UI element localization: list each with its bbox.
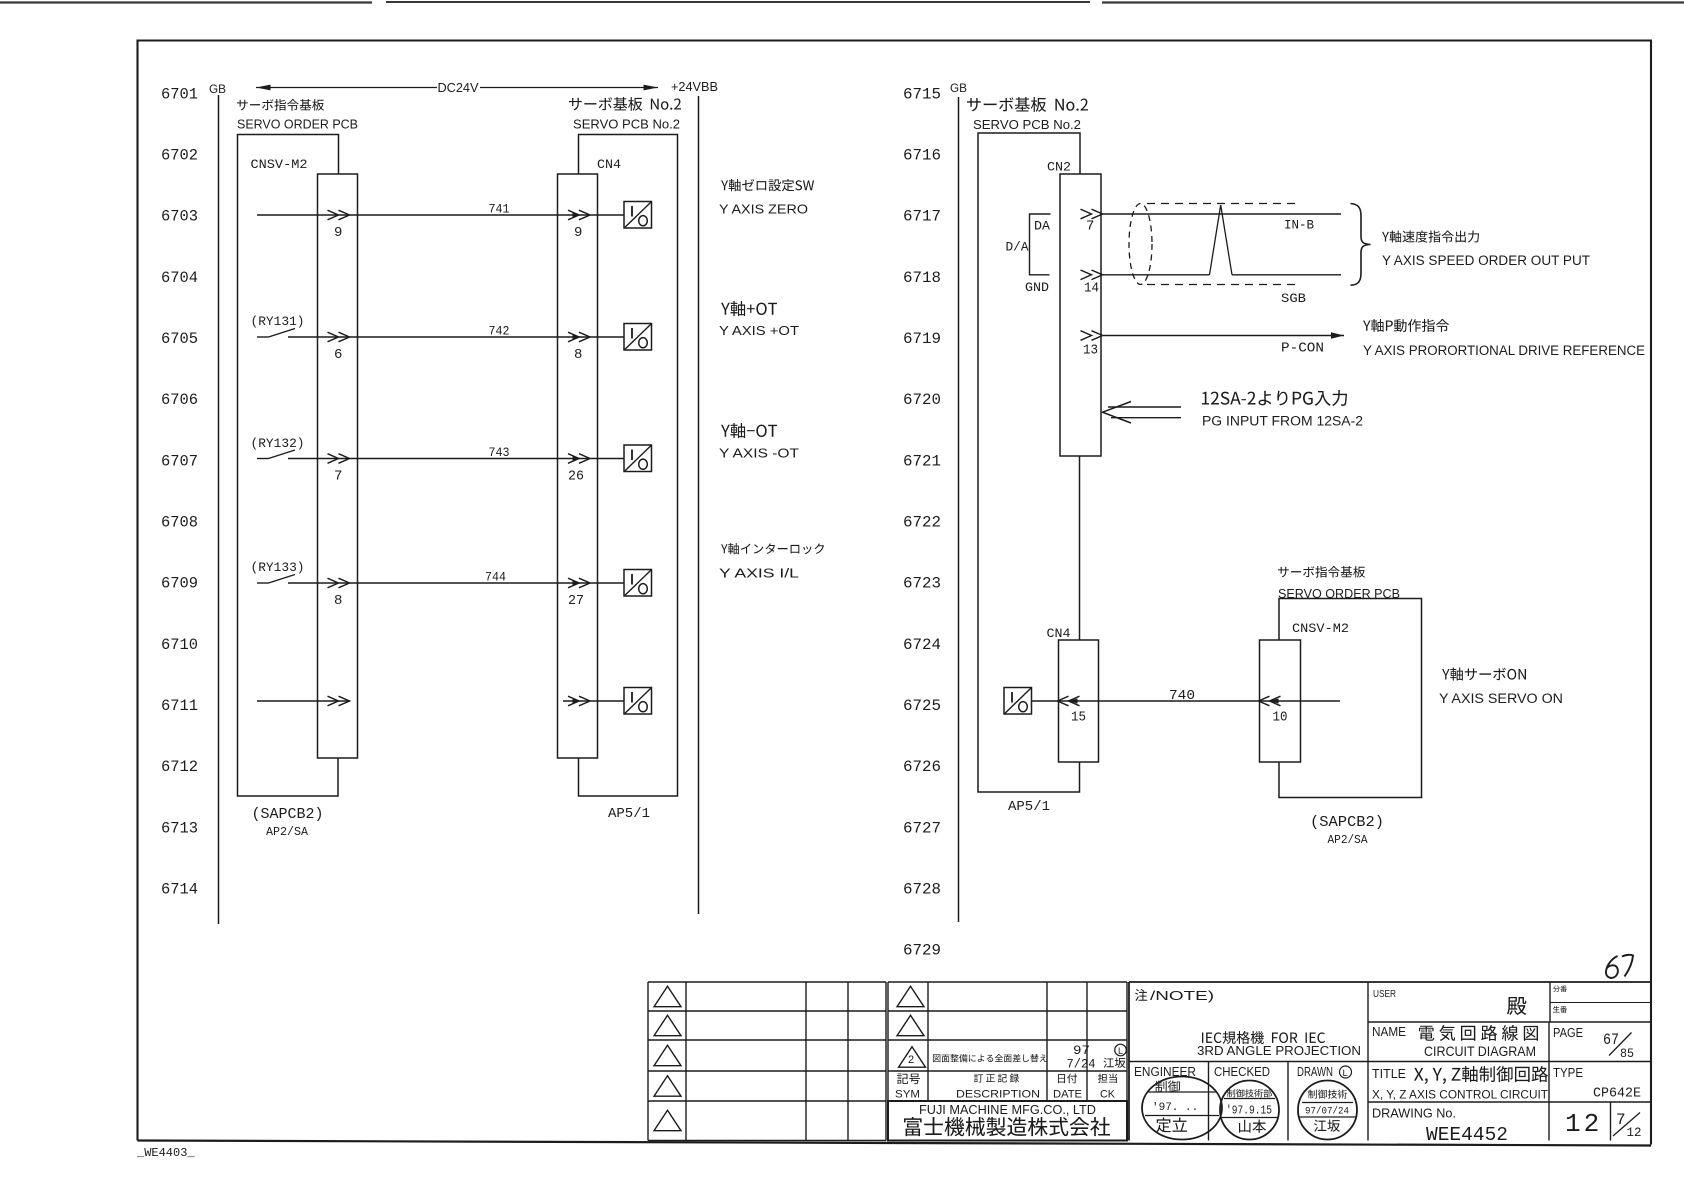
svg-text:DC24V: DC24V [438, 80, 479, 95]
svg-text:6719: 6719 [903, 330, 941, 348]
svg-text:WEE4452: WEE4452 [1426, 1124, 1508, 1146]
svg-text:SERVO ORDER PCB: SERVO ORDER PCB [1278, 587, 1400, 601]
title block part number cells [1553, 986, 1567, 1013]
svg-text:SERVO PCB No.2: SERVO PCB No.2 [573, 118, 680, 132]
svg-text:743: 743 [489, 445, 510, 460]
svg-text:CNSV-M2: CNSV-M2 [251, 157, 308, 172]
stamp DRAWN (Esaka) [1298, 1081, 1357, 1140]
svg-text:FUJI MACHINE MFG.CO., LTD: FUJI MACHINE MFG.CO., LTD [919, 1102, 1096, 1117]
svg-text:PAGE: PAGE [1553, 1026, 1583, 1040]
svg-text:7: 7 [1086, 219, 1094, 235]
svg-text:6707: 6707 [161, 452, 198, 470]
svg-text:(RY133): (RY133) [251, 560, 305, 575]
svg-text:SYM: SYM [895, 1089, 920, 1101]
title block TITLE: X,Y,Z AXIS CONTROL CIRCUIT [1372, 1066, 1548, 1101]
svg-text:SERVO ORDER PCB: SERVO ORDER PCB [237, 118, 358, 132]
svg-text:6703: 6703 [161, 208, 198, 226]
revision table (left) [648, 982, 886, 1141]
svg-text:6711: 6711 [161, 697, 198, 715]
board SERVO PCB No.2 (right) outline [967, 97, 1088, 792]
svg-text:6709: 6709 [161, 575, 198, 593]
svg-text:744: 744 [485, 570, 506, 585]
svg-text:6708: 6708 [161, 514, 198, 532]
svg-text:6729: 6729 [903, 942, 941, 960]
svg-text:D/A: D/A [1006, 240, 1029, 255]
svg-text:6706: 6706 [161, 391, 198, 409]
svg-text:13: 13 [1083, 343, 1098, 359]
board SERVO ORDER PCB (right) outline [1278, 566, 1422, 797]
svg-text:6705: 6705 [161, 330, 198, 348]
svg-text:12: 12 [1627, 1125, 1642, 1140]
svg-text:6723: 6723 [903, 575, 941, 593]
svg-text:Y AXIS I/L: Y AXIS I/L [719, 566, 799, 581]
board SERVO ORDER PCB (left) outline [237, 99, 358, 796]
svg-text:CIRCUIT DIAGRAM: CIRCUIT DIAGRAM [1424, 1043, 1536, 1059]
svg-text:6725: 6725 [903, 697, 941, 715]
wire 741 (Y axis zero) [257, 210, 624, 220]
label Y AXIS SPEED ORDER OUT PUT [1382, 231, 1590, 268]
label Y AXIS +OT [719, 301, 799, 338]
I/O symbol row 6705 [624, 324, 652, 351]
I/O symbol row 6711 [624, 688, 652, 715]
svg-text:6728: 6728 [903, 881, 941, 899]
revision table header SYM DESCRIPTION DATE CK [895, 1073, 1117, 1100]
net DC24V span arrow [256, 80, 658, 95]
svg-text:DATE: DATE [1053, 1089, 1082, 1101]
maker name cell border [888, 1101, 1127, 1141]
I/O symbol row 6725 [1004, 688, 1032, 715]
svg-text:741: 741 [489, 202, 510, 217]
svg-text:14: 14 [1084, 281, 1099, 297]
svg-text:CHECKED: CHECKED [1214, 1064, 1270, 1079]
D/A converter block [1006, 214, 1051, 295]
note text IEC / 3RD ANGLE PROJECTION [1197, 1031, 1361, 1058]
svg-text:_WE4403_: _WE4403_ [136, 1146, 195, 1160]
svg-text:CK: CK [1100, 1089, 1116, 1101]
svg-text:97/07/24: 97/07/24 [1305, 1106, 1349, 1118]
svg-text:DRAWING No.: DRAWING No. [1372, 1107, 1456, 1121]
svg-text:8: 8 [334, 593, 342, 609]
connector CNSV-M2 (left) [251, 157, 358, 758]
svg-text:SERVO PCB No.2: SERVO PCB No.2 [973, 118, 1081, 132]
I/O symbol row 6703 [624, 202, 652, 229]
svg-text:'97.9.15: '97.9.15 [1226, 1105, 1272, 1118]
I/O symbol row 6707 [624, 445, 652, 472]
svg-text:3RD ANGLE PROJECTION: 3RD ANGLE PROJECTION [1197, 1044, 1361, 1058]
wire row 6711 (unlabeled spare) [257, 696, 624, 706]
svg-text:6717: 6717 [903, 208, 941, 226]
svg-text:CP642E: CP642E [1593, 1086, 1641, 1102]
svg-text:P-CON: P-CON [1281, 341, 1324, 357]
svg-text:6715: 6715 [903, 85, 941, 103]
svg-text:PG INPUT FROM 12SA-2: PG INPUT FROM 12SA-2 [1202, 414, 1363, 429]
svg-text:2: 2 [908, 1054, 914, 1066]
relay contact RY131 [251, 314, 305, 329]
I/O symbol row 6709 [624, 570, 652, 597]
svg-text:IN-B: IN-B [1284, 218, 1314, 233]
bus +24VBB vertical wire [698, 96, 700, 914]
svg-text:9: 9 [334, 225, 342, 241]
svg-text:Y AXIS PRORORTIONAL DRIVE REFE: Y AXIS PRORORTIONAL DRIVE REFERENCE [1363, 343, 1645, 358]
svg-text:6724: 6724 [903, 636, 941, 654]
svg-text:GND: GND [1025, 281, 1049, 295]
svg-text:740: 740 [1169, 688, 1195, 704]
svg-text:8: 8 [574, 347, 582, 363]
svg-text:AP5/1: AP5/1 [1008, 799, 1050, 815]
svg-text:'97. ..: '97. .. [1152, 1102, 1198, 1114]
svg-text:SGB: SGB [1281, 291, 1306, 306]
svg-text:/NOTE): /NOTE) [1150, 989, 1214, 1003]
line number column 6715-6729 [903, 85, 941, 959]
revision marks rows 1-2 (right table) [897, 986, 924, 1035]
svg-text:7: 7 [334, 469, 342, 485]
wire SGB (pin 14, speed order -) with twist crossover [1081, 205, 1342, 280]
label Y AXIS I/L [719, 543, 824, 580]
svg-text:AP2/SA: AP2/SA [1328, 833, 1369, 847]
relay contact RY132 [251, 436, 305, 451]
PG input double-line arrow [1103, 402, 1182, 424]
svg-text:X, Y, Z AXIS CONTROL CIRCUIT: X, Y, Z AXIS CONTROL CIRCUIT [1372, 1090, 1548, 1102]
wire 744 (Y axis interlock) [257, 575, 624, 588]
svg-text:6714: 6714 [161, 881, 198, 899]
stamp cell headers ENGINEER CHECKED DRAWN [1134, 1064, 1352, 1079]
svg-text:(SAPCB2): (SAPCB2) [252, 806, 324, 823]
svg-text:Y AXIS -OT: Y AXIS -OT [719, 446, 799, 461]
label PG INPUT FROM 12SA-2 [1202, 390, 1363, 429]
label Y AXIS SERVO ON [1439, 668, 1563, 706]
board SERVO PCB No.2 (left) outline [569, 97, 681, 796]
line number column 6701-6714 [161, 85, 198, 898]
maker name FUJI MACHINE MFG.CO., LTD [904, 1102, 1110, 1136]
label Y AXIS PROPORTIONAL DRIVE REFERENCE [1363, 319, 1645, 358]
svg-text:(SAPCB2): (SAPCB2) [1310, 814, 1384, 831]
svg-text:6716: 6716 [903, 147, 941, 165]
title block PAGE 67/85 [1553, 1026, 1634, 1061]
svg-text:AP5/1: AP5/1 [608, 806, 650, 822]
svg-text:Y AXIS ZERO: Y AXIS ZERO [719, 202, 808, 217]
handwritten page number 67 [1606, 956, 1618, 978]
title block DRAWING No. WEE4452 [1372, 1107, 1508, 1147]
svg-text:6726: 6726 [903, 758, 941, 776]
svg-text:CN4: CN4 [597, 157, 621, 172]
svg-text:6718: 6718 [903, 269, 941, 287]
cable shield symbol (dashed) [1129, 204, 1300, 285]
svg-text:6727: 6727 [903, 819, 941, 837]
title block TYPE CP642E [1553, 1066, 1641, 1102]
svg-text:AP2/SA: AP2/SA [266, 825, 309, 839]
svg-text:6713: 6713 [161, 819, 198, 837]
svg-text:6702: 6702 [161, 147, 198, 165]
label Y AXIS -OT [719, 423, 799, 460]
svg-text:(RY132): (RY132) [251, 436, 305, 451]
svg-text:6720: 6720 [903, 391, 941, 409]
wire 742 (Y axis +OT) [257, 329, 624, 342]
relay contact RY133 [251, 560, 305, 575]
svg-text:GB: GB [209, 82, 226, 96]
svg-text:7/24: 7/24 [1067, 1057, 1096, 1072]
stamp ENGINEER (Adachi) [1142, 1077, 1222, 1140]
svg-text:TYPE: TYPE [1553, 1066, 1583, 1080]
stamp CHECKED (Yamamoto) [1220, 1081, 1279, 1140]
title block sheet 12 7/12 [1565, 1109, 1642, 1140]
connector CNSV-M2 (right) [1260, 621, 1350, 762]
svg-text:Y AXIS SERVO ON: Y AXIS SERVO ON [1439, 691, 1563, 706]
svg-text:+24VBB: +24VBB [671, 79, 718, 94]
bus GB (left) vertical wire [218, 95, 220, 924]
svg-text:67: 67 [1603, 1031, 1619, 1049]
wire 743 (Y axis -OT) [257, 450, 624, 463]
svg-text:DRAWN: DRAWN [1297, 1064, 1333, 1079]
title block USER cell [1373, 988, 1526, 1015]
svg-text:6712: 6712 [161, 758, 198, 776]
label Y AXIS ZERO [719, 179, 814, 216]
revision marks (left table triangles) [654, 986, 681, 1130]
svg-text:6704: 6704 [161, 269, 198, 287]
svg-text:CNSV-M2: CNSV-M2 [1292, 621, 1349, 636]
wire IN-B (pin 7, speed order +) [1081, 209, 1342, 219]
svg-text:Y AXIS SPEED ORDER OUT PUT: Y AXIS SPEED ORDER OUT PUT [1382, 253, 1590, 268]
svg-text:6721: 6721 [903, 452, 941, 470]
svg-text:GB: GB [950, 81, 967, 95]
svg-text:TITLE: TITLE [1372, 1067, 1406, 1081]
svg-text:6722: 6722 [903, 514, 941, 532]
svg-text:Y AXIS +OT: Y AXIS +OT [719, 323, 799, 338]
svg-text:12: 12 [1565, 1109, 1602, 1139]
note text NOTE) [1135, 989, 1214, 1003]
svg-text:(RY131): (RY131) [251, 314, 305, 329]
svg-text:10: 10 [1273, 710, 1288, 726]
wire 740 (Y axis servo on) [1032, 696, 1341, 706]
revision table (right) [888, 982, 1127, 1141]
svg-text:27: 27 [568, 593, 584, 609]
svg-text:85: 85 [1620, 1046, 1634, 1061]
svg-text:15: 15 [1071, 710, 1086, 726]
svg-text:DA: DA [1034, 219, 1050, 234]
svg-text:6: 6 [334, 347, 342, 363]
connector CN2 [1047, 160, 1101, 457]
svg-text:6701: 6701 [161, 85, 198, 103]
svg-text:9: 9 [574, 225, 582, 241]
label (SAPCB2) AP2/SA (right) [1310, 814, 1384, 847]
title block NAME: CIRCUIT DIAGRAM [1372, 1025, 1538, 1059]
svg-text:26: 26 [568, 469, 584, 485]
svg-text:USER: USER [1373, 988, 1396, 1000]
brace Y axis speed order output [1351, 204, 1371, 286]
svg-text:L: L [1343, 1068, 1348, 1079]
svg-text:742: 742 [489, 324, 510, 339]
wire P-CON (pin 13) [1081, 331, 1345, 341]
svg-text:L: L [1118, 1046, 1123, 1056]
connector CN4 (left) [558, 157, 622, 758]
svg-text:CN2: CN2 [1047, 160, 1071, 175]
svg-text:DESCRIPTION: DESCRIPTION [956, 1089, 1040, 1101]
svg-text:6710: 6710 [161, 636, 198, 654]
bus GB (right) vertical wire [958, 97, 960, 922]
revision entry 2: full replacement 97 7/24 [899, 1043, 1127, 1072]
label (SAPCB2) AP2/SA (left) [252, 806, 324, 839]
note block frame [1129, 982, 1651, 1141]
svg-text:NAME: NAME [1372, 1025, 1406, 1039]
svg-text:CN4: CN4 [1047, 626, 1071, 641]
connector CN4 (right) [1047, 626, 1099, 762]
